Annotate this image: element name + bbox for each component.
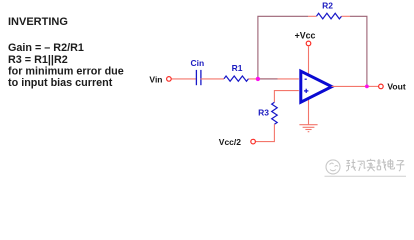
- watermark glyph dian: [388, 159, 394, 169]
- ground: [299, 125, 317, 132]
- node A junction dot: [256, 77, 260, 81]
- wire to R2 left: [308, 15, 317, 17]
- wire non-inverting input: [274, 91, 298, 103]
- svg-text:for minimum error due: for minimum error due: [8, 65, 124, 77]
- op-amp plus pin mark: [304, 89, 308, 93]
- node B junction dot: [365, 85, 369, 89]
- wire feedback riser: [258, 16, 308, 79]
- wire feedback right drop to output: [350, 16, 367, 86]
- watermark underline: [325, 175, 407, 177]
- wire Vin terminal to Cin: [171, 78, 196, 80]
- svg-text:R2: R2: [322, 0, 333, 10]
- svg-text:Cin: Cin: [191, 58, 205, 68]
- svg-text:INVERTING: INVERTING: [8, 16, 68, 28]
- wire output to Vout terminal: [367, 85, 379, 87]
- svg-text:R1: R1: [232, 63, 243, 73]
- resistor R1: [224, 76, 249, 81]
- svg-text:Vout: Vout: [387, 82, 405, 92]
- op-amp U1: [301, 71, 332, 102]
- wire op-amp output: [332, 85, 367, 87]
- op-amp minus pin mark: [305, 78, 307, 80]
- wire segment (dark) at node A: [259, 78, 277, 80]
- watermark glyph zi: [396, 161, 404, 172]
- svg-text:+Vcc: +Vcc: [295, 31, 316, 41]
- resistor R3: [272, 102, 278, 124]
- terminal Vout: [379, 84, 384, 89]
- resistor R2: [317, 13, 342, 19]
- terminal +Vcc: [306, 41, 311, 46]
- watermark glyph shi: [367, 159, 375, 171]
- svg-text:R3: R3: [258, 108, 269, 118]
- svg-text:Vin: Vin: [149, 74, 162, 84]
- wire +Vcc to op-amp V+ pin: [308, 46, 310, 75]
- terminal Vin: [167, 77, 172, 82]
- wire R3 to Vcc/2 terminal: [256, 124, 275, 141]
- svg-text:Gain = – R2/R1: Gain = – R2/R1: [8, 42, 84, 54]
- svg-text:to input bias current: to input bias current: [8, 77, 113, 89]
- svg-text:R3 = R1||R2: R3 = R1||R2: [8, 54, 68, 66]
- watermark glyph zhang: [346, 159, 355, 171]
- watermark glyph zhan: [377, 159, 386, 171]
- wire op-amp V- pin to ground: [308, 98, 310, 124]
- watermark logo circle: [326, 160, 340, 174]
- svg-text:Vcc/2: Vcc/2: [219, 137, 241, 147]
- wire R1 to op-amp inverting input: [249, 78, 299, 80]
- wire Cin to R1: [201, 78, 225, 80]
- terminal Vcc/2: [251, 139, 256, 144]
- capacitor Cin: [196, 70, 201, 85]
- wire R2 right stub: [342, 15, 351, 17]
- watermark glyph fei: [358, 161, 366, 171]
